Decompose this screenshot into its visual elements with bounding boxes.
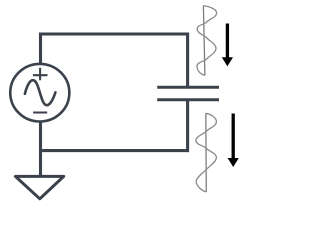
minus polarity mark bbox=[33, 112, 47, 114]
ground bbox=[15, 176, 63, 198]
ac voltage source V1 bbox=[10, 64, 69, 122]
plus polarity mark bbox=[33, 68, 48, 81]
wire: bottom horizontal bbox=[39, 149, 189, 152]
wire: top-left vertical bbox=[39, 33, 42, 65]
current direction arrow (top) bbox=[222, 24, 233, 67]
sine symbol inside source bbox=[25, 80, 56, 105]
wire: right vertical upper segment bbox=[186, 33, 189, 87]
current squiggle annotation (top) bbox=[197, 6, 217, 76]
current direction arrow (bottom) bbox=[228, 114, 239, 168]
wire: top horizontal bbox=[39, 32, 189, 35]
source body circle bbox=[10, 64, 69, 122]
wire: left vertical from source to ground bbox=[39, 121, 42, 176]
capacitor C1 bottom plate bbox=[157, 98, 219, 101]
capacitor C1 top plate bbox=[157, 86, 219, 89]
wire: right vertical lower segment bbox=[186, 101, 189, 153]
current squiggle annotation (bottom) bbox=[196, 113, 217, 192]
